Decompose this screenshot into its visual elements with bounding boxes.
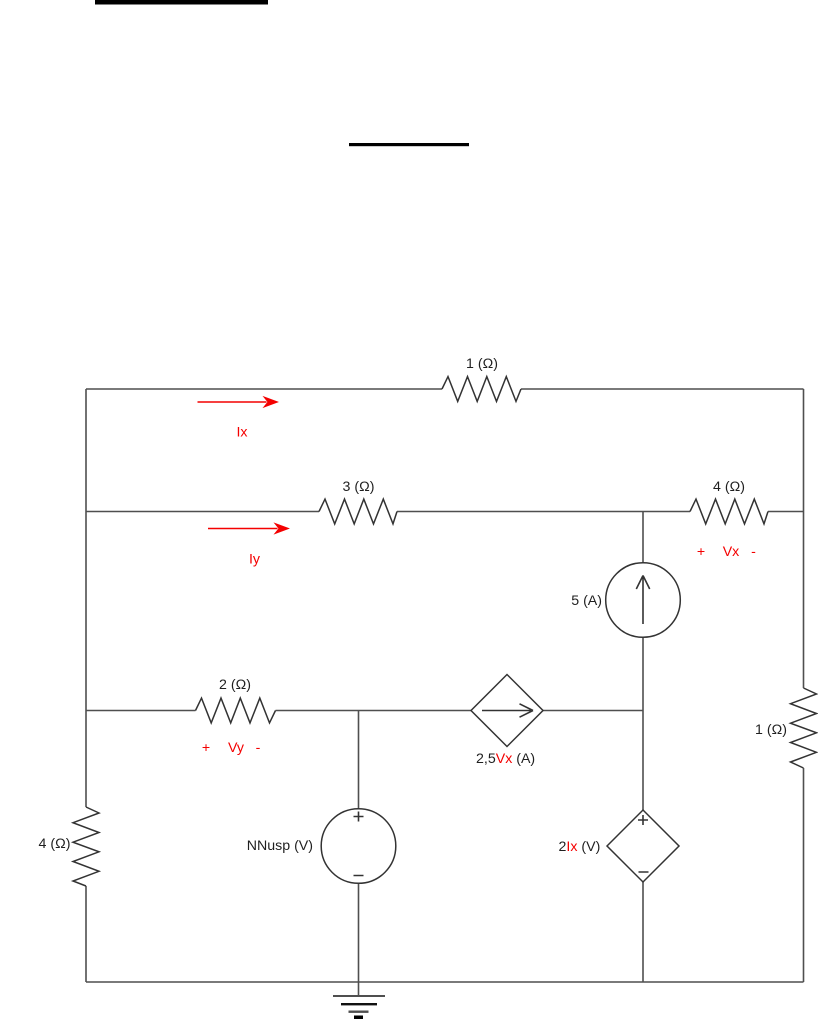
svg-text:NNusp (V): NNusp (V) (247, 838, 313, 854)
svg-text:Ix: Ix (236, 425, 247, 441)
svg-text:-: - (751, 544, 756, 560)
svg-text:1 (Ω): 1 (Ω) (466, 356, 498, 372)
svg-text:+: + (202, 740, 210, 756)
svg-text:5 (A): 5 (A) (571, 593, 602, 609)
svg-text:1 (Ω): 1 (Ω) (755, 722, 787, 738)
svg-text:2Ix (V): 2Ix (V) (559, 839, 601, 855)
svg-text:4 (Ω): 4 (Ω) (713, 479, 745, 495)
svg-text:2,5Vx (A): 2,5Vx (A) (476, 751, 535, 767)
svg-text:Vx: Vx (723, 544, 740, 560)
svg-text:4 (Ω): 4 (Ω) (39, 836, 71, 852)
svg-text:3 (Ω): 3 (Ω) (343, 479, 375, 495)
svg-text:+: + (697, 544, 705, 560)
svg-text:-: - (256, 740, 261, 756)
svg-text:2 (Ω): 2 (Ω) (219, 677, 251, 693)
svg-text:Vy: Vy (228, 740, 245, 756)
svg-text:Iy: Iy (249, 552, 261, 568)
